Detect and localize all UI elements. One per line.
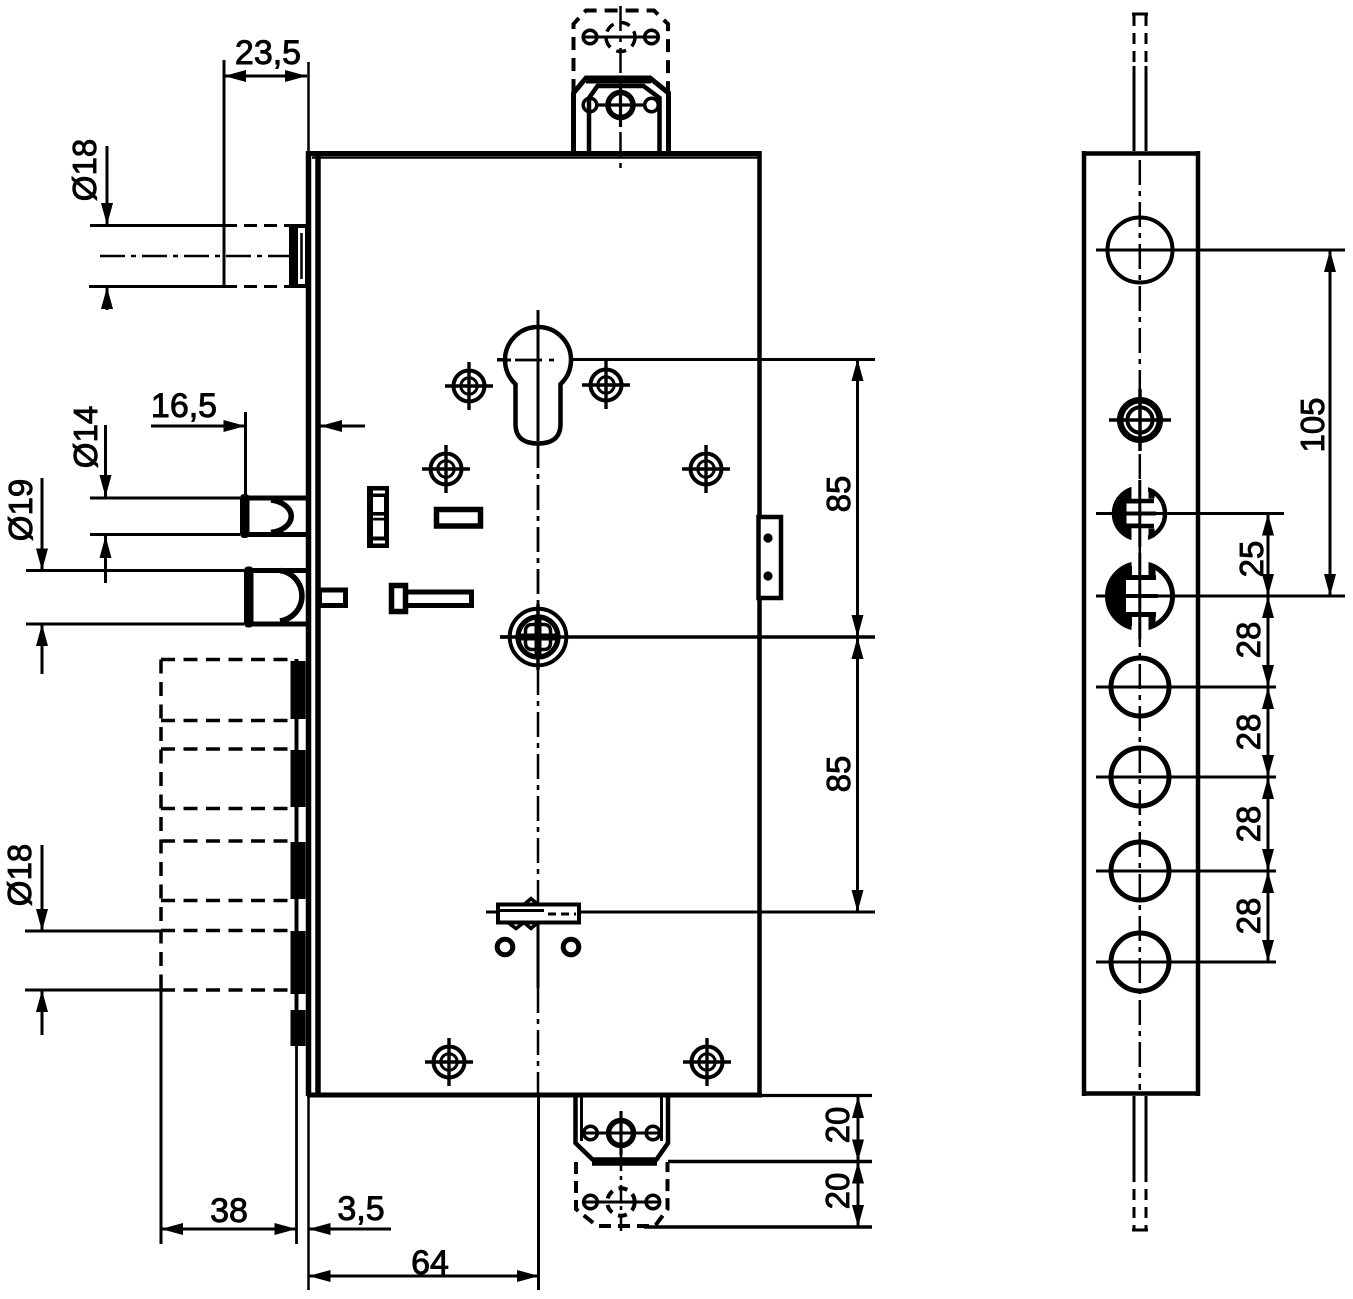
svg-text:105: 105 [1294,397,1331,452]
svg-text:85: 85 [820,476,857,513]
svg-text:25: 25 [1233,541,1270,578]
svg-text:28: 28 [1230,898,1267,935]
svg-text:16,5: 16,5 [151,387,217,425]
svg-text:Ø14: Ø14 [67,406,104,468]
svg-text:20: 20 [819,1173,856,1210]
svg-text:38: 38 [210,1192,248,1230]
svg-text:20: 20 [819,1107,856,1144]
svg-text:Ø18: Ø18 [66,139,103,201]
svg-text:Ø19: Ø19 [2,479,39,541]
svg-text:64: 64 [411,1244,449,1282]
svg-text:28: 28 [1230,806,1267,843]
svg-text:28: 28 [1230,714,1267,751]
svg-text:28: 28 [1230,622,1267,659]
svg-text:23,5: 23,5 [235,34,301,72]
svg-text:Ø18: Ø18 [1,844,38,906]
svg-text:3,5: 3,5 [337,1190,384,1228]
svg-text:85: 85 [820,756,857,793]
